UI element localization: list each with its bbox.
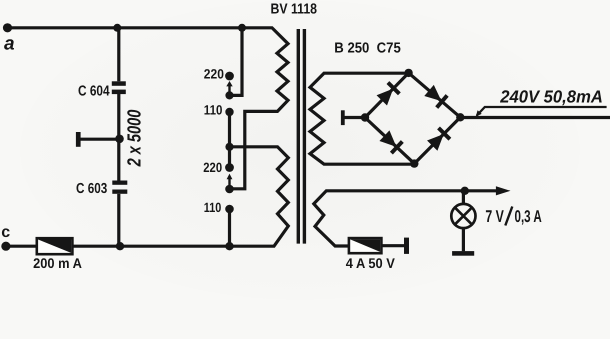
svg-text:220: 220: [204, 66, 224, 81]
svg-text:C 603: C 603: [76, 181, 107, 197]
svg-text:B 250 C75: B 250 C75: [334, 40, 401, 56]
svg-text:110: 110: [204, 103, 223, 118]
svg-text:BV 1118: BV 1118: [271, 2, 318, 18]
svg-text:0,3 A: 0,3 A: [515, 207, 542, 226]
svg-text:2 x 5000: 2 x 5000: [125, 109, 146, 167]
svg-text:110: 110: [204, 200, 222, 215]
svg-text:C 604: C 604: [78, 83, 110, 99]
svg-text:7 V: 7 V: [485, 207, 504, 226]
svg-text:4 A 50 V: 4 A 50 V: [346, 255, 396, 271]
svg-text:c: c: [1, 224, 10, 241]
svg-text:200 m A: 200 m A: [33, 255, 82, 271]
svg-text:220: 220: [203, 160, 222, 175]
svg-text:240V 50,8mA: 240V 50,8mA: [499, 87, 603, 107]
svg-text:a: a: [4, 34, 15, 55]
